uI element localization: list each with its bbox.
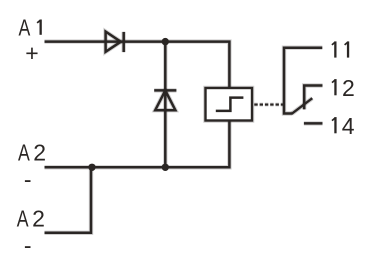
svg-text:A: A — [18, 140, 30, 166]
svg-text:A: A — [17, 206, 29, 232]
svg-text:2: 2 — [342, 75, 355, 101]
svg-text:2: 2 — [33, 140, 46, 166]
svg-text:-: - — [24, 233, 32, 259]
svg-text:4: 4 — [342, 113, 355, 139]
svg-text:2: 2 — [32, 206, 45, 232]
svg-text:-: - — [24, 167, 32, 193]
svg-text:A: A — [19, 15, 31, 41]
svg-text:+: + — [25, 40, 38, 66]
